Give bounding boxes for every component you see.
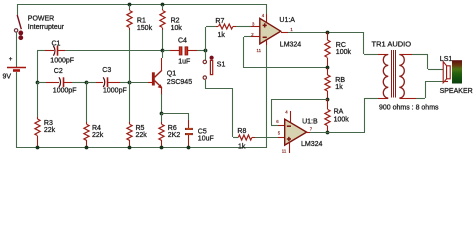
node emitter junction xyxy=(160,112,164,116)
transistor Q1 emitter diagonal xyxy=(155,81,162,88)
node base bias junction xyxy=(128,81,132,85)
wire RB top lead xyxy=(327,68,329,75)
transformer TR1 secondary coil xyxy=(399,55,404,99)
wire RC bottom lead xyxy=(327,58,329,68)
svg-text:1k: 1k xyxy=(238,144,246,151)
svg-text:C3: C3 xyxy=(102,67,111,74)
wire bottom rail xyxy=(16,147,267,149)
wire V- pin U1:A xyxy=(266,40,268,45)
wire C5 top lead xyxy=(188,120,190,128)
wire R3 bottom lead xyxy=(37,136,39,148)
resistor R4 xyxy=(84,124,89,140)
node R1 top junction xyxy=(128,3,132,7)
svg-text:1: 1 xyxy=(290,27,293,32)
svg-text:900 ohms : 8 ohms: 900 ohms : 8 ohms xyxy=(379,105,439,112)
wire S1 junction to R7 xyxy=(205,27,207,51)
wire output to TR1 primary top xyxy=(363,32,365,54)
wire RB bottom lead xyxy=(327,91,329,99)
resistor R2 xyxy=(160,11,165,28)
svg-text:4: 4 xyxy=(262,13,265,18)
wire battery + to switch xyxy=(16,32,18,67)
svg-text:9V: 9V xyxy=(3,74,12,81)
svg-text:1000pF: 1000pF xyxy=(50,58,74,65)
resistor R7 xyxy=(219,24,233,29)
node R4 ground junction xyxy=(85,146,89,150)
svg-text:RB: RB xyxy=(335,77,345,84)
switch S1 terminal 1 xyxy=(203,60,206,63)
wire C3 left lead xyxy=(86,82,96,84)
node C2 row left junction xyxy=(36,81,40,85)
svg-text:R1: R1 xyxy=(137,17,146,24)
svg-text:LM324: LM324 xyxy=(280,42,302,49)
svg-text:R2: R2 xyxy=(171,17,180,24)
wire S1 bottom lead xyxy=(205,80,207,89)
wire emitter riser xyxy=(161,88,163,95)
wire C4 left lead xyxy=(163,50,170,52)
svg-text:C4: C4 xyxy=(178,38,187,45)
wire C2 right lead xyxy=(64,82,72,84)
wire R2 bottom lead xyxy=(162,28,164,30)
wire collector riser xyxy=(162,51,164,58)
wire secondary top to speaker xyxy=(400,54,412,56)
wire C1 left lead xyxy=(37,50,45,52)
svg-text:1uF: 1uF xyxy=(178,58,190,65)
op-amp U1:B minus mark xyxy=(287,125,291,127)
svg-text:C2: C2 xyxy=(54,68,63,75)
node feedback junction xyxy=(326,66,330,70)
svg-text:10uF: 10uF xyxy=(198,136,214,143)
resistor R1 xyxy=(127,11,132,28)
wire R4 top lead xyxy=(86,82,88,122)
switch S1 terminal 2 xyxy=(203,76,206,79)
svg-text:11: 11 xyxy=(282,148,287,153)
wire Q1 base lead xyxy=(129,82,148,84)
transistor Q1 collector diagonal xyxy=(155,70,162,77)
op-amp U1:A xyxy=(260,18,281,44)
transformer TR1 core xyxy=(391,50,393,98)
wire R3 top lead xyxy=(37,82,39,117)
capacitor C1 xyxy=(53,46,55,56)
svg-text:11: 11 xyxy=(257,48,262,53)
svg-text:7: 7 xyxy=(310,126,313,131)
svg-text:22k: 22k xyxy=(44,127,56,134)
capacitor C5 plus plate xyxy=(185,128,193,130)
svg-text:R4: R4 xyxy=(92,125,101,132)
svg-text:SPEAKER: SPEAKER xyxy=(440,88,473,95)
capacitor C5 minus plate xyxy=(185,133,193,135)
capacitor C2 xyxy=(59,77,61,87)
wire RA top lead xyxy=(327,99,329,109)
wire V- pin U1:B xyxy=(289,142,291,153)
op-amp U1:B plus mark xyxy=(287,137,291,141)
wire RC top lead xyxy=(327,32,329,40)
svg-text:1000pF: 1000pF xyxy=(53,87,77,94)
switch S-POWER lever xyxy=(17,15,21,29)
wire R6 bottom lead xyxy=(161,140,163,148)
wire R7 right lead xyxy=(233,26,236,28)
wire output U1:A xyxy=(281,32,288,34)
svg-text:100k: 100k xyxy=(334,116,350,123)
wire secondary bottom to speaker xyxy=(400,98,416,100)
svg-text:1000pF: 1000pF xyxy=(103,87,127,94)
switch S-POWER contact 2 xyxy=(18,35,23,40)
svg-text:6: 6 xyxy=(276,119,279,124)
wire C4 right lead xyxy=(188,50,197,52)
svg-text:R8: R8 xyxy=(237,128,246,135)
node output A junction xyxy=(326,31,330,35)
wire S1 top stub xyxy=(205,51,207,60)
wire R8 right lead xyxy=(252,137,255,139)
svg-text:22k: 22k xyxy=(92,132,104,139)
svg-text:R6: R6 xyxy=(168,125,177,132)
node R4 top junction xyxy=(85,81,89,85)
svg-text:1k: 1k xyxy=(218,32,226,39)
wire C2 left lead xyxy=(38,82,46,84)
resistor R3 xyxy=(35,119,40,136)
speaker LS1 cone xyxy=(443,62,446,83)
svg-text:RC: RC xyxy=(336,42,346,49)
node C5 ground junction xyxy=(187,146,191,150)
resistor R8 xyxy=(238,135,252,140)
capacitor C4 plate 2 xyxy=(185,46,189,55)
svg-text:2K2: 2K2 xyxy=(168,132,181,139)
wire divider to pin6 xyxy=(271,99,328,101)
pin 5 stub xyxy=(278,137,285,139)
wire C3 right lead xyxy=(108,82,120,84)
svg-text:150k: 150k xyxy=(137,25,153,32)
resistor RB xyxy=(325,75,330,91)
wire V+ pin U1:A xyxy=(266,4,268,14)
transistor Q1 emitter arrow xyxy=(158,84,163,88)
node collector junction xyxy=(161,49,165,53)
svg-text:LS1: LS1 xyxy=(440,56,453,63)
wire battery - to ground rail xyxy=(16,72,18,148)
node R5 ground junction xyxy=(128,146,132,150)
wire C1 right lead xyxy=(58,50,65,52)
wire top rail +9V xyxy=(17,4,266,6)
svg-text:10k: 10k xyxy=(171,25,183,32)
svg-text:2SC945: 2SC945 xyxy=(167,79,192,86)
capacitor C3 xyxy=(103,77,105,87)
svg-text:22k: 22k xyxy=(136,132,148,139)
wire feedback pin2 xyxy=(244,36,251,38)
transistor Q1 base bar xyxy=(152,72,155,85)
wire R1 bottom lead xyxy=(129,28,131,30)
wire C5 bottom lead xyxy=(188,135,190,148)
node S1 junction xyxy=(204,49,208,53)
svg-text:RA: RA xyxy=(334,109,344,116)
battery BAT1 plus plate xyxy=(7,67,26,69)
svg-text:R7: R7 xyxy=(215,18,224,25)
svg-text:+: + xyxy=(9,56,13,63)
svg-text:Interrupteur: Interrupteur xyxy=(28,24,65,31)
wire RA bottom lead xyxy=(327,126,329,132)
svg-text:100k: 100k xyxy=(336,49,352,56)
node divider junction xyxy=(326,98,330,102)
battery BAT1 minus plate xyxy=(13,69,20,72)
switch S1 bar xyxy=(210,60,212,74)
wire R2 top lead xyxy=(162,5,164,9)
wire R4 bottom lead xyxy=(86,140,88,148)
transformer TR1 primary coil xyxy=(383,55,388,99)
op-amp U1:A plus mark xyxy=(263,23,267,27)
wire R8 left stub xyxy=(233,137,238,139)
svg-text:1k: 1k xyxy=(335,84,343,91)
wire V+ pin U1:B xyxy=(290,111,292,123)
wire R7 left stub xyxy=(216,26,218,28)
switch S1 knob xyxy=(210,56,214,60)
pin 3 stub xyxy=(251,26,260,28)
svg-text:Q1: Q1 xyxy=(167,71,176,78)
svg-text:C1: C1 xyxy=(52,40,61,47)
switch S-POWER contact 1 xyxy=(18,31,23,36)
wire pin2 stub xyxy=(251,36,260,38)
node R2 top junction xyxy=(161,3,165,7)
svg-text:POWER: POWER xyxy=(28,16,54,23)
resistor R5 xyxy=(127,124,132,140)
resistor R6 xyxy=(159,124,164,140)
wire C1 row left riser corner xyxy=(37,51,39,82)
svg-text:R5: R5 xyxy=(136,125,145,132)
svg-text:S1: S1 xyxy=(217,62,226,69)
svg-text:C5: C5 xyxy=(198,128,207,135)
svg-text:LM324: LM324 xyxy=(301,141,323,148)
capacitor C4 plate 1 xyxy=(179,46,183,55)
wire emitter to C5 xyxy=(162,113,189,115)
op-amp U1:B xyxy=(285,119,307,145)
resistor RA xyxy=(325,109,330,125)
wire return riser to TR1 primary bottom xyxy=(364,98,366,132)
svg-text:3: 3 xyxy=(252,22,255,27)
node R6 ground junction xyxy=(160,146,164,150)
node output B junction xyxy=(326,131,330,135)
svg-text:5: 5 xyxy=(278,130,281,135)
svg-text:4: 4 xyxy=(285,110,288,115)
node R3 ground junction xyxy=(36,146,40,150)
wire output U1:B xyxy=(307,132,310,134)
wire switch to top rail xyxy=(17,4,19,15)
switch S-POWER pole terminal xyxy=(14,29,17,32)
svg-text:TR1 AUDIO: TR1 AUDIO xyxy=(372,40,412,49)
wire R5 bottom lead xyxy=(129,140,131,148)
resistor RC xyxy=(325,40,330,58)
op-amp U1:A minus mark xyxy=(263,36,267,38)
svg-text:U1:A: U1:A xyxy=(279,17,295,24)
svg-text:R3: R3 xyxy=(44,120,53,127)
wire R5 top lead xyxy=(129,82,131,122)
pin 6 stub xyxy=(278,125,285,127)
wire R6 top lead xyxy=(161,113,163,122)
wire R1 top lead xyxy=(129,5,131,9)
svg-text:U1:B: U1:B xyxy=(302,119,318,126)
